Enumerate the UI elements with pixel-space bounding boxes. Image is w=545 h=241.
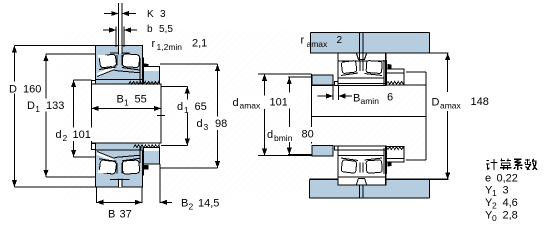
svg-text:B: B (181, 198, 188, 210)
lock washer (bottom) (140, 148, 148, 175)
char 数 (525, 159, 537, 170)
lubrication hole lines bottom (358, 185, 360, 198)
svg-text:d: d (56, 129, 62, 141)
label r 1,2min 2,1 (152, 38, 208, 53)
svg-text:37: 37 (120, 209, 132, 221)
dimension d2 101 (54, 80, 96, 157)
svg-text:98: 98 (215, 118, 227, 130)
roller right bottom (366, 160, 382, 174)
svg-text:amax: amax (440, 101, 462, 111)
guide ring lines top (359, 61, 361, 71)
housing shoulder bottom (312, 146, 333, 157)
dimension D 160 (7, 46, 96, 188)
groove notch top (357, 54, 367, 60)
svg-text:d: d (197, 118, 203, 130)
svg-text:6: 6 (387, 92, 393, 104)
dimension B 37 (96, 187, 142, 221)
row Y0 2,8 (485, 210, 518, 224)
char 系 (514, 159, 523, 170)
svg-text:148: 148 (471, 96, 489, 108)
lock nut KM (top) (144, 67, 160, 85)
lubrication hole (118, 45, 122, 54)
washer right fig bottom (383, 148, 385, 174)
row Y2 4,6 (485, 197, 518, 211)
dimension B1 55 (inside shaft) (92, 94, 162, 112)
groove notch bottom (357, 178, 367, 184)
label r amax 2 (301, 35, 343, 50)
sleeve line top (338, 83, 386, 85)
char 算 (500, 159, 512, 170)
svg-text:133: 133 (46, 100, 64, 112)
svg-text:1: 1 (124, 98, 129, 108)
svg-text:B: B (353, 93, 360, 105)
raceway sliver left (bottom) (98, 170, 109, 174)
roller left bottom (341, 160, 357, 174)
cage lines top (341, 73, 358, 76)
housing top band (311, 33, 449, 54)
inner ring sliver (bottom) (97, 152, 115, 163)
svg-text:80: 80 (302, 129, 314, 141)
svg-text:d: d (267, 129, 273, 141)
lock washer (top) (140, 58, 148, 84)
sleeve boundary line (top) (96, 79, 144, 81)
lubrication hole bottom (118, 179, 122, 188)
svg-text:2: 2 (189, 202, 194, 212)
svg-text:1,2min: 1,2min (157, 42, 183, 52)
svg-text:1: 1 (492, 188, 497, 198)
svg-text:101: 101 (270, 97, 288, 109)
row e 0,22 (485, 173, 518, 185)
shaft face line (310, 74, 312, 144)
svg-text:3: 3 (160, 9, 166, 20)
inner ring sliver (top) (97, 66, 115, 77)
bearing body top (blue base) (96, 46, 143, 85)
svg-text:D: D (9, 84, 17, 96)
shaft axis tick (157, 115, 165, 117)
svg-text:4,6: 4,6 (503, 197, 518, 209)
roller row right (bottom) (122, 160, 140, 174)
sleeve flange right fig bottom (335, 146, 338, 150)
background hatch texture (58, 28, 426, 198)
svg-text:B: B (117, 94, 124, 106)
guide ring lines bottom (359, 163, 361, 173)
title 计算系数 (drawn strokes) (486, 159, 537, 170)
sleeve thread (top) (129, 81, 160, 84)
lock nut KM (bottom) (144, 148, 160, 165)
roller row left (top) (99, 54, 117, 68)
svg-text:2,8: 2,8 (503, 210, 518, 222)
svg-text:D: D (27, 100, 35, 112)
housing bottom band (310, 179, 449, 198)
inner ring line top (338, 77, 384, 79)
dimension Bamin 6 (318, 86, 394, 107)
lubrication hole lines top (358, 33, 360, 61)
svg-text:101: 101 (73, 129, 91, 141)
sleeve boundary line (bottom) (96, 149, 144, 151)
thread right fig top (386, 81, 404, 84)
svg-text:5,5: 5,5 (159, 24, 173, 35)
inner ring line bottom (338, 155, 384, 157)
svg-text:r: r (301, 35, 305, 47)
sleeve flange right fig top (335, 82, 338, 86)
housing shoulder top (312, 75, 333, 86)
washer right fig top (383, 60, 385, 85)
sleeve top band (92, 80, 161, 85)
svg-text:0: 0 (492, 213, 497, 223)
svg-text:amax: amax (307, 39, 329, 49)
outer ring outline top (338, 53, 386, 86)
dimension d1 65 (161, 86, 209, 145)
shaft top line (311, 84, 426, 86)
roller right top (366, 60, 382, 73)
svg-text:1: 1 (184, 105, 189, 115)
thread right fig bottom (386, 147, 404, 150)
svg-text:e: e (485, 173, 491, 185)
nut right fig bottom (386, 147, 404, 163)
svg-text:amin: amin (361, 96, 380, 106)
dimension d3 98 (160, 64, 231, 168)
char 计 (486, 159, 498, 170)
cage lines (top) (99, 67, 140, 70)
svg-text:bmin: bmin (274, 133, 293, 143)
svg-text:d: d (233, 97, 239, 109)
svg-text:amax: amax (240, 101, 262, 111)
lubrication groove line (110, 52, 130, 54)
svg-text:160: 160 (23, 84, 41, 96)
guide ring (top) (117, 55, 122, 66)
svg-text:1: 1 (35, 104, 40, 114)
svg-text:d: d (177, 101, 183, 113)
cage lines bottom (341, 158, 358, 161)
svg-text:2: 2 (492, 201, 497, 211)
svg-text:b: b (147, 24, 153, 35)
shaft step bracket (406, 72, 426, 160)
svg-text:r: r (152, 38, 156, 50)
dimension dbmin 80 (266, 77, 316, 154)
row Y1 3 (485, 185, 509, 199)
dimension B2 14,5 (160, 164, 219, 212)
svg-text:B: B (108, 209, 115, 221)
axis line (311, 116, 426, 118)
shaft (92, 84, 162, 143)
roller row right (top) (122, 54, 140, 68)
svg-text:3: 3 (204, 122, 209, 132)
svg-text:0,22: 0,22 (497, 173, 518, 185)
cage lines (bottom) (99, 158, 140, 161)
dimension K 3 (lubrication hole) (104, 3, 166, 46)
inner ring line (top) (115, 71, 141, 73)
sleeve line bottom (338, 149, 386, 151)
roller left top (341, 60, 357, 73)
svg-text:2: 2 (337, 35, 343, 46)
svg-text:K: K (147, 9, 154, 20)
dimension b 5,5 (lubrication groove) (103, 24, 173, 47)
svg-text:65: 65 (195, 101, 207, 113)
dimension D1 133 (26, 54, 96, 177)
guide ring (bottom) (117, 163, 122, 174)
dimension Damax 148 (432, 53, 489, 179)
outer ring outline bottom (338, 146, 386, 185)
sleeve bottom band (92, 144, 144, 150)
lubrication groove line bottom (110, 179, 130, 181)
sleeve thread (bottom) (134, 145, 160, 148)
dimension damax 101 (231, 74, 311, 156)
nut right fig top (386, 69, 404, 85)
svg-text:2,1: 2,1 (192, 38, 207, 50)
svg-text:55: 55 (135, 94, 147, 106)
svg-text:2: 2 (63, 133, 68, 143)
bearing body bottom (blue base) (96, 150, 143, 187)
inner ring line (bottom) (115, 155, 141, 157)
svg-text:D: D (432, 97, 440, 109)
svg-text:14,5: 14,5 (198, 198, 219, 210)
roller row left (bottom) (99, 160, 117, 175)
svg-text:3: 3 (503, 185, 509, 197)
raceway sliver left (top) (98, 55, 109, 59)
